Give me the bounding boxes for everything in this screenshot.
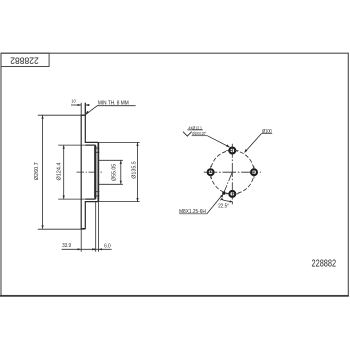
- title box: [1, 53, 49, 66]
- dim 10: arrow left-pointing: [85, 104, 89, 106]
- svg-text:6.0: 6.0: [104, 243, 111, 249]
- disc left face extension above: [80, 103, 82, 115]
- svg-text:228882: 228882: [10, 54, 39, 65]
- dim 10: extension over disc: [84, 103, 86, 114]
- bolt circle D100 dashed: [211, 151, 254, 194]
- bolt hole section ticks upper: [94, 147, 99, 149]
- svg-text:33.9: 33.9: [62, 243, 71, 249]
- dim D135.5: extension lines: [99, 141, 140, 143]
- dim 33.9 / 6.0 dimension line: [62, 248, 112, 250]
- bottom dims: extension line hat inner face: [95, 202, 97, 252]
- dim D55.05: dimension line: [120, 160, 122, 184]
- right hole cross tick stubs: [253, 166, 255, 170]
- svg-text:Ø124.4: Ø124.4: [57, 162, 63, 180]
- svg-text:Ø135.5: Ø135.5: [132, 161, 138, 179]
- dim D55.05: extension lines: [99, 159, 123, 161]
- bolt hole top: [229, 148, 235, 154]
- bolt hole bottom: [229, 191, 235, 197]
- dim 10: dimension line left segment: [71, 104, 81, 106]
- centerline of section: [77, 171, 102, 173]
- bottom dims: extension line disc left face: [80, 229, 82, 252]
- dim D260.7: dimension line: [42, 115, 44, 229]
- bolt hole section ticks lower: [94, 191, 99, 193]
- disc and hat outer outline: [81, 103, 98, 229]
- countersink symbol: [183, 132, 192, 136]
- dim 6.0 arrows: [94, 248, 96, 250]
- dim D260.7: extension lines: [38, 114, 85, 116]
- svg-text:Ø100: Ø100: [262, 129, 272, 135]
- dim 33.9 arrows: [78, 248, 82, 250]
- dim D124.4: dimension line: [63, 145, 65, 199]
- hat flange inner face heavy line: [94, 146, 96, 198]
- frame bottom heavy line: [0, 295, 349, 297]
- top hole cross tick stubs: [226, 150, 230, 152]
- svg-text:Ø260.7: Ø260.7: [34, 162, 40, 180]
- dim D135.5: dimension line: [137, 142, 139, 201]
- svg-text:MIN TH. 8 MM: MIN TH. 8 MM: [98, 101, 129, 107]
- angle arc 22.5: [221, 199, 232, 201]
- dim 10: arrow right-pointing: [78, 104, 82, 106]
- M8 threaded hole: [222, 191, 225, 194]
- svg-text:22.5°: 22.5°: [218, 204, 229, 210]
- svg-text:10: 10: [71, 98, 76, 103]
- svg-text:228882: 228882: [312, 258, 337, 270]
- leader to M8 hole: [207, 194, 223, 214]
- bolt hole right: [251, 169, 257, 175]
- bottom hole cross tick stubs: [226, 193, 230, 195]
- dim 10: dimension line right segment: [85, 104, 90, 106]
- leader to top bolt hole: [207, 136, 229, 147]
- leader to bolt circle: [245, 134, 262, 153]
- hat flange outer face heavy line: [97, 143, 99, 202]
- bolt hole left: [208, 169, 214, 175]
- hat inner surface: [85, 145, 95, 199]
- M8 hole centerline at 22.5deg: [221, 172, 233, 200]
- leader MIN TH. 8 MM: [85, 111, 89, 115]
- horizontal centerline: [204, 171, 261, 173]
- dim D124.4: extension lines: [58, 144, 85, 146]
- vertical centerline: [231, 144, 233, 205]
- disc top edge: [81, 114, 85, 116]
- bottom dims: extension line hat outer face: [97, 202, 99, 252]
- left hole cross tick stubs: [210, 166, 212, 170]
- svg-text:Ø55.05: Ø55.05: [112, 164, 118, 181]
- drawing frame: [1, 53, 348, 295]
